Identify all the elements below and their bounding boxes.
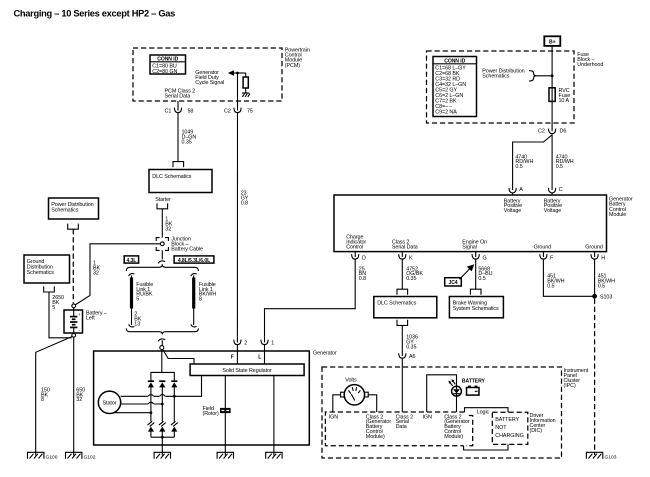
svg-text:Schematics: Schematics xyxy=(482,74,509,80)
fusible link bottom hook (right) xyxy=(191,324,197,327)
connector C2/D6 xyxy=(538,128,566,134)
generator battery control module box xyxy=(334,195,607,252)
driver information center label xyxy=(530,413,556,434)
svg-text:0.5: 0.5 xyxy=(598,283,605,289)
field rotor label xyxy=(203,406,219,417)
battery icon xyxy=(467,386,480,396)
svg-text:NOT: NOT xyxy=(495,425,507,431)
wire 5668 D-BU 0.5 (G) xyxy=(475,259,477,289)
ground G103 xyxy=(586,452,616,460)
wire A6 into IPC xyxy=(401,358,403,412)
svg-text:4.8L/5.3L/6.0L: 4.8L/5.3L/6.0L xyxy=(178,258,210,264)
wire fuse to C2/D6 xyxy=(551,102,553,131)
svg-text:G102: G102 xyxy=(84,454,96,460)
wire C2 inside PCM xyxy=(237,73,239,106)
IPC box (dashed) xyxy=(322,367,562,458)
power distribution bracket xyxy=(529,71,536,81)
rectifier bottom diode 1 xyxy=(148,413,155,438)
svg-text:Serial Data: Serial Data xyxy=(165,94,191,100)
svg-text:0.35: 0.35 xyxy=(182,140,192,146)
svg-text:Data: Data xyxy=(396,424,407,430)
splice S103 xyxy=(592,294,612,300)
battery positive voltage label (C) xyxy=(544,198,562,214)
wire 1049 D-GN xyxy=(177,113,179,162)
bracket into DLC schematics xyxy=(173,162,184,168)
rectifier bottom bus xyxy=(151,436,174,438)
bracket below power distribution xyxy=(68,224,79,230)
svg-text:0.8: 0.8 xyxy=(241,200,248,206)
fusible link 1 RU/BK bar xyxy=(130,278,133,309)
labels row box (dashed) xyxy=(325,412,464,446)
svg-text:32: 32 xyxy=(76,397,82,403)
fuse block label xyxy=(577,52,603,68)
svg-text:(PCM): (PCM) xyxy=(285,63,300,69)
bracket from starter xyxy=(157,203,168,209)
bracket into DLC (lower) xyxy=(397,289,408,295)
wire node to regulator (diagonal) xyxy=(163,349,195,364)
label 4752 OG/BK 0.35 xyxy=(406,266,423,282)
svg-text:0.5: 0.5 xyxy=(515,164,522,170)
generator field duty cycle signal label xyxy=(195,70,224,86)
terminal H xyxy=(591,252,605,262)
wire B+ down xyxy=(551,47,553,88)
wire bracket to B+ wire xyxy=(534,75,552,77)
battery Battery-Left xyxy=(64,308,83,334)
terminal F xyxy=(540,252,554,262)
svg-text:10 A: 10 A xyxy=(559,98,570,104)
generator B+ node xyxy=(160,346,164,350)
label 1036 GY 0.35 xyxy=(406,335,418,351)
svg-text:Left: Left xyxy=(86,315,95,321)
DLC Schematics box (lower) xyxy=(374,297,437,318)
svg-text:Solid State Regulator: Solid State Regulator xyxy=(222,368,272,374)
svg-text:Battery Cable: Battery Cable xyxy=(171,247,203,253)
label 451 BK/WH 0.5 (F) xyxy=(547,274,564,290)
lamp emission arrows xyxy=(448,379,455,386)
labels row box right notch (dashed) xyxy=(466,416,473,446)
svg-text:DLC Schematics: DLC Schematics xyxy=(377,301,416,307)
volts gauge wire to IGN xyxy=(333,395,341,412)
svg-text:5: 5 xyxy=(136,297,139,303)
svg-text:(Rotor): (Rotor) xyxy=(203,411,219,417)
svg-text:C2: C2 xyxy=(538,128,545,134)
svg-text:Ground: Ground xyxy=(585,244,603,250)
svg-text:B+: B+ xyxy=(549,40,556,46)
GBCM label xyxy=(609,197,633,219)
dashed wire S103 to G103 xyxy=(594,299,596,455)
svg-text:8: 8 xyxy=(41,397,44,403)
engine on signal label xyxy=(462,239,487,250)
rectifier top diode 1 xyxy=(148,381,154,413)
svg-text:C2=80 GN: C2=80 GN xyxy=(152,69,177,75)
label 1049 D-GN 0.35 xyxy=(182,130,197,146)
svg-text:D: D xyxy=(362,255,366,261)
battery positive voltage label (A) xyxy=(504,198,522,214)
wire branch to A terminal xyxy=(513,135,553,190)
wire 4752 OG/BK (K) xyxy=(401,259,403,289)
svg-text:8: 8 xyxy=(199,297,202,303)
connector A xyxy=(509,187,523,195)
svg-text:0.5: 0.5 xyxy=(556,164,563,170)
fusible link 1 BK/WH hook top xyxy=(191,274,197,278)
4.3L variant box xyxy=(124,256,138,264)
tap junction dots xyxy=(173,395,176,398)
junction dot on B+ wire xyxy=(551,74,554,77)
field rotor symbol xyxy=(220,408,231,413)
svg-text:Charging – 10 Series except HP: Charging – 10 Series except HP2 – Gas xyxy=(14,8,176,18)
overbrace split xyxy=(126,264,198,271)
CONN ID box (PCM) xyxy=(150,55,186,75)
label 1 BK 32 (battery cable) xyxy=(93,261,101,277)
svg-text:H: H xyxy=(601,255,605,261)
field rotor wire xyxy=(224,376,226,456)
DLC Schematics box (upper) xyxy=(149,170,212,193)
label 5668 D-BU 0.5 xyxy=(478,266,492,282)
label 650 BK 32 xyxy=(76,387,85,403)
svg-text:Module: Module xyxy=(609,212,626,218)
B+ box xyxy=(544,36,560,46)
lamp to class 2 wire xyxy=(456,396,458,412)
connector 2 (F) xyxy=(234,337,248,347)
CONN ID box (fuse block) xyxy=(433,57,477,117)
connector A6 xyxy=(399,353,416,360)
power distribution reference label xyxy=(482,69,524,80)
dashed wire power distribution to battery xyxy=(72,229,74,303)
wire 451 BK/WH (H) xyxy=(594,259,596,298)
volts gauge xyxy=(341,377,369,405)
rectifier top bus xyxy=(151,372,174,381)
ground G100 xyxy=(28,452,58,460)
stator xyxy=(98,391,120,413)
PCM module box (dashed) xyxy=(133,48,282,101)
wire 1036 GY 0.35 xyxy=(401,325,403,356)
svg-text:58: 58 xyxy=(188,109,194,115)
svg-text:Voltage: Voltage xyxy=(504,208,522,214)
regulator ground wire xyxy=(273,376,275,456)
svg-text:DLC Schematics: DLC Schematics xyxy=(152,174,191,180)
4.8L/5.3L/6.0L variant box xyxy=(174,256,214,264)
bracket below DLC (lower) xyxy=(397,320,408,326)
battery telltale wire (IGN) xyxy=(427,375,457,412)
junction block - battery cable (dashed corners) xyxy=(156,238,168,251)
ground G102 xyxy=(66,452,96,460)
fuse block box (dashed) xyxy=(427,51,575,123)
svg-text:IGN: IGN xyxy=(423,414,433,420)
svg-text:L: L xyxy=(258,355,261,361)
svg-text:Module): Module) xyxy=(444,434,463,440)
svg-text:0.5: 0.5 xyxy=(478,276,485,282)
ground (rectifier) xyxy=(154,452,170,458)
rectifier top diode 3 xyxy=(171,381,177,396)
connector C2 pin 75 xyxy=(224,101,253,115)
svg-text:D6: D6 xyxy=(560,128,567,134)
svg-text:Stator: Stator xyxy=(103,400,117,406)
svg-text:Voltage: Voltage xyxy=(544,208,562,214)
bracket into brake warning box xyxy=(470,289,481,295)
terminal G xyxy=(472,252,487,262)
svg-text:BATTERY: BATTERY xyxy=(495,417,519,423)
wire node to rectifier xyxy=(161,350,163,373)
svg-text:CONN ID: CONN ID xyxy=(444,58,465,64)
wire 2650 BK 5 xyxy=(49,292,72,338)
brake warning system schematics box xyxy=(449,297,503,318)
label 1 BK 32 xyxy=(165,217,173,233)
battery telltale lamp xyxy=(452,386,462,396)
svg-text:C2: C2 xyxy=(224,109,231,115)
resistor (PCM internal) xyxy=(243,73,248,93)
label 150 BK 8 xyxy=(41,387,50,403)
svg-text:System Schematics: System Schematics xyxy=(453,306,499,312)
splice break symbol (top) xyxy=(158,261,165,263)
wire junction block to battery xyxy=(75,244,160,305)
class 2 GBCM label (lamp) xyxy=(444,414,470,440)
ground (regulator) xyxy=(266,452,282,458)
rectifier bottom diode 2 xyxy=(159,404,166,437)
charge indicator control label xyxy=(346,235,366,251)
Ground Distribution Schematics box xyxy=(24,255,70,283)
label 25 BN 0.8 xyxy=(359,266,367,282)
ground (field) xyxy=(217,452,233,458)
connector C xyxy=(549,187,563,195)
wire 25 BN 0.8 (D to generator L) xyxy=(265,259,356,337)
svg-text:32: 32 xyxy=(93,271,99,277)
svg-text:(DIC): (DIC) xyxy=(530,428,543,434)
junction node on C2 wire xyxy=(236,72,239,75)
wire 23 GY 0.8 (PCM C2 to generator F) xyxy=(236,113,238,337)
label 4740 RD/WH 0.5 (A) xyxy=(515,154,533,170)
ground (PCM internal) xyxy=(242,93,250,97)
stator tap wire 1 (with hops) xyxy=(121,395,175,397)
svg-text:Underhood: Underhood xyxy=(577,62,603,68)
wire 451 BK/WH (F) to S103 xyxy=(543,259,592,296)
svg-text:4.3L: 4.3L xyxy=(126,258,136,264)
svg-text:Schematics: Schematics xyxy=(51,207,78,213)
L terminal wire xyxy=(264,345,266,364)
Power Distribution Schematics box xyxy=(49,198,99,219)
svg-text:G: G xyxy=(483,255,487,261)
svg-text:Volts: Volts xyxy=(345,377,357,383)
label 23 GY 0.8 xyxy=(241,191,249,207)
logic box xyxy=(464,408,508,450)
svg-text:75: 75 xyxy=(247,109,253,115)
solid state regulator box xyxy=(190,364,304,376)
connector 1 (L) xyxy=(261,337,274,347)
wire 2 BK 13 xyxy=(131,309,133,326)
junction block label xyxy=(171,237,203,253)
svg-text:Cycle Signal: Cycle Signal xyxy=(195,80,224,86)
wire junction block down xyxy=(161,250,163,259)
rectifier bottom diode 3 xyxy=(171,396,178,437)
svg-text:C: C xyxy=(559,187,563,193)
svg-text:(IPC): (IPC) xyxy=(564,383,576,389)
volts gauge wire to class 2 xyxy=(368,395,377,412)
svg-text:0.8: 0.8 xyxy=(359,276,366,282)
label 2 BK 13 xyxy=(134,312,142,328)
label fusible link 1 RU/BK 5 xyxy=(136,282,153,303)
JC4 arrow xyxy=(460,264,475,279)
svg-text:CHARGING: CHARGING xyxy=(495,433,523,439)
battery label xyxy=(86,310,107,321)
svg-text:Generator: Generator xyxy=(313,350,337,356)
IPC label xyxy=(564,368,589,389)
svg-text:BATTERY: BATTERY xyxy=(462,379,486,385)
svg-text:Starter: Starter xyxy=(155,197,171,203)
JC4 box xyxy=(445,278,462,286)
svg-text:0.5: 0.5 xyxy=(547,283,554,289)
svg-text:Ground: Ground xyxy=(534,244,552,250)
svg-text:Serial Data: Serial Data xyxy=(392,244,418,250)
svg-text:Signal: Signal xyxy=(462,244,477,250)
label 451 BK/WH 0.5 (H) xyxy=(598,274,615,290)
fusible link 1 RU/BK hook top xyxy=(129,274,135,278)
RVC fuse xyxy=(549,87,555,102)
svg-text:CONN ID: CONN ID xyxy=(157,56,178,62)
label fusible link 1 BK/WH 8 xyxy=(199,282,216,303)
PCM label xyxy=(285,48,310,69)
svg-text:A6: A6 xyxy=(409,354,416,360)
bracket below ground distribution xyxy=(44,286,55,292)
rectifier top diode 2 xyxy=(159,381,165,404)
connector C1 pin 58 xyxy=(165,101,194,115)
wire 150 BK 8 to G100 xyxy=(36,337,72,456)
svg-text:32: 32 xyxy=(165,226,171,232)
svg-text:JC4: JC4 xyxy=(448,280,457,286)
terminal D xyxy=(352,252,366,262)
svg-text:Module): Module) xyxy=(366,434,385,440)
label 2650 BK 5 xyxy=(52,295,64,311)
wire 650 BK 32 to G102 xyxy=(73,337,75,455)
rectifier ground wire xyxy=(161,436,164,456)
F terminal wire xyxy=(236,345,238,364)
fusible link 1 BK/WH bar xyxy=(192,278,195,309)
svg-text:1: 1 xyxy=(271,340,274,346)
svg-text:C9=2 NA: C9=2 NA xyxy=(435,110,457,116)
svg-text:G103: G103 xyxy=(605,454,617,460)
svg-text:S103: S103 xyxy=(600,294,612,300)
class 2 serial data label (A6) xyxy=(396,414,413,430)
svg-text:Control: Control xyxy=(346,244,363,250)
svg-text:Schematics: Schematics xyxy=(27,270,54,276)
svg-text:Logic: Logic xyxy=(477,409,490,415)
battery not charging box (dashed) xyxy=(492,412,528,444)
svg-text:G100: G100 xyxy=(46,454,58,460)
svg-text:F: F xyxy=(231,355,234,361)
signal direction arrow xyxy=(228,70,246,75)
underbrace merge xyxy=(126,328,198,334)
junction block node xyxy=(160,242,164,246)
class 2 serial data label (K) xyxy=(392,239,418,250)
svg-text:C1: C1 xyxy=(165,109,172,115)
svg-text:K: K xyxy=(409,255,413,261)
battery top node xyxy=(72,304,76,308)
battery bottom node xyxy=(72,333,76,337)
wire 1 BK 32 (starter to junction block) xyxy=(161,209,163,238)
wire link to brace (right) xyxy=(193,309,195,326)
stator tap wire 2 (with hop) xyxy=(121,403,163,405)
label 4740 RD/WH 0.5 (C) xyxy=(556,154,574,170)
generator box xyxy=(94,351,310,445)
wire to C terminal xyxy=(551,134,553,190)
PCM class 2 serial data label xyxy=(165,89,196,100)
fusible link bottom hook (left) xyxy=(129,324,135,327)
svg-text:A: A xyxy=(519,187,523,193)
sense wire tap to regulator xyxy=(174,376,201,397)
svg-text:IGN: IGN xyxy=(329,414,339,420)
RVC fuse label xyxy=(559,88,571,104)
terminal K xyxy=(399,252,413,262)
stator tap wire 3 xyxy=(114,412,151,414)
svg-text:0.35: 0.35 xyxy=(406,344,416,350)
svg-text:13: 13 xyxy=(134,321,140,327)
splice break symbol (bottom) xyxy=(158,339,165,346)
svg-text:5: 5 xyxy=(52,305,55,311)
svg-text:0.35: 0.35 xyxy=(406,276,416,282)
svg-text:2: 2 xyxy=(244,340,247,346)
class 2 GBCM label (gauge) xyxy=(366,414,392,440)
